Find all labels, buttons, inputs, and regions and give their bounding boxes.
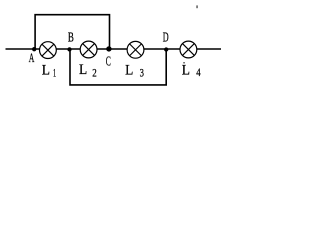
- lamp L2: [80, 41, 97, 58]
- svg-text:L: L: [42, 63, 50, 79]
- wire L3 to L4: [143, 48, 181, 50]
- svg-text:L: L: [79, 62, 87, 78]
- label L3: [125, 62, 144, 79]
- svg-text:A: A: [29, 51, 35, 65]
- svg-text:C: C: [106, 54, 111, 69]
- wire L1 to L2: [56, 48, 82, 50]
- svg-text:4: 4: [196, 65, 200, 79]
- wire L4 to right: [196, 48, 221, 50]
- svg-text:L: L: [182, 63, 190, 79]
- label L1: [42, 63, 56, 80]
- wire top branch A to C: [35, 15, 109, 49]
- node D: [164, 47, 168, 51]
- wire left feed: [6, 48, 42, 50]
- svg-text:D: D: [163, 30, 169, 45]
- wire bottom branch B to D: [70, 49, 166, 85]
- lamp L3: [127, 41, 144, 58]
- label L2: [79, 62, 97, 79]
- node A: [32, 47, 36, 51]
- svg-text:3: 3: [140, 65, 144, 79]
- node C: [106, 46, 111, 51]
- stray fleck above L4: [183, 62, 185, 64]
- node B: [67, 47, 71, 51]
- svg-text:2: 2: [92, 65, 97, 79]
- lamp L1: [40, 42, 57, 59]
- svg-text:L: L: [125, 62, 133, 78]
- svg-text:B: B: [68, 29, 74, 44]
- wire L2 to L3: [97, 48, 129, 50]
- lamp L4: [180, 41, 197, 58]
- svg-text:1: 1: [53, 66, 56, 80]
- stray mark top right: [196, 5, 197, 8]
- label L4: [182, 63, 201, 79]
